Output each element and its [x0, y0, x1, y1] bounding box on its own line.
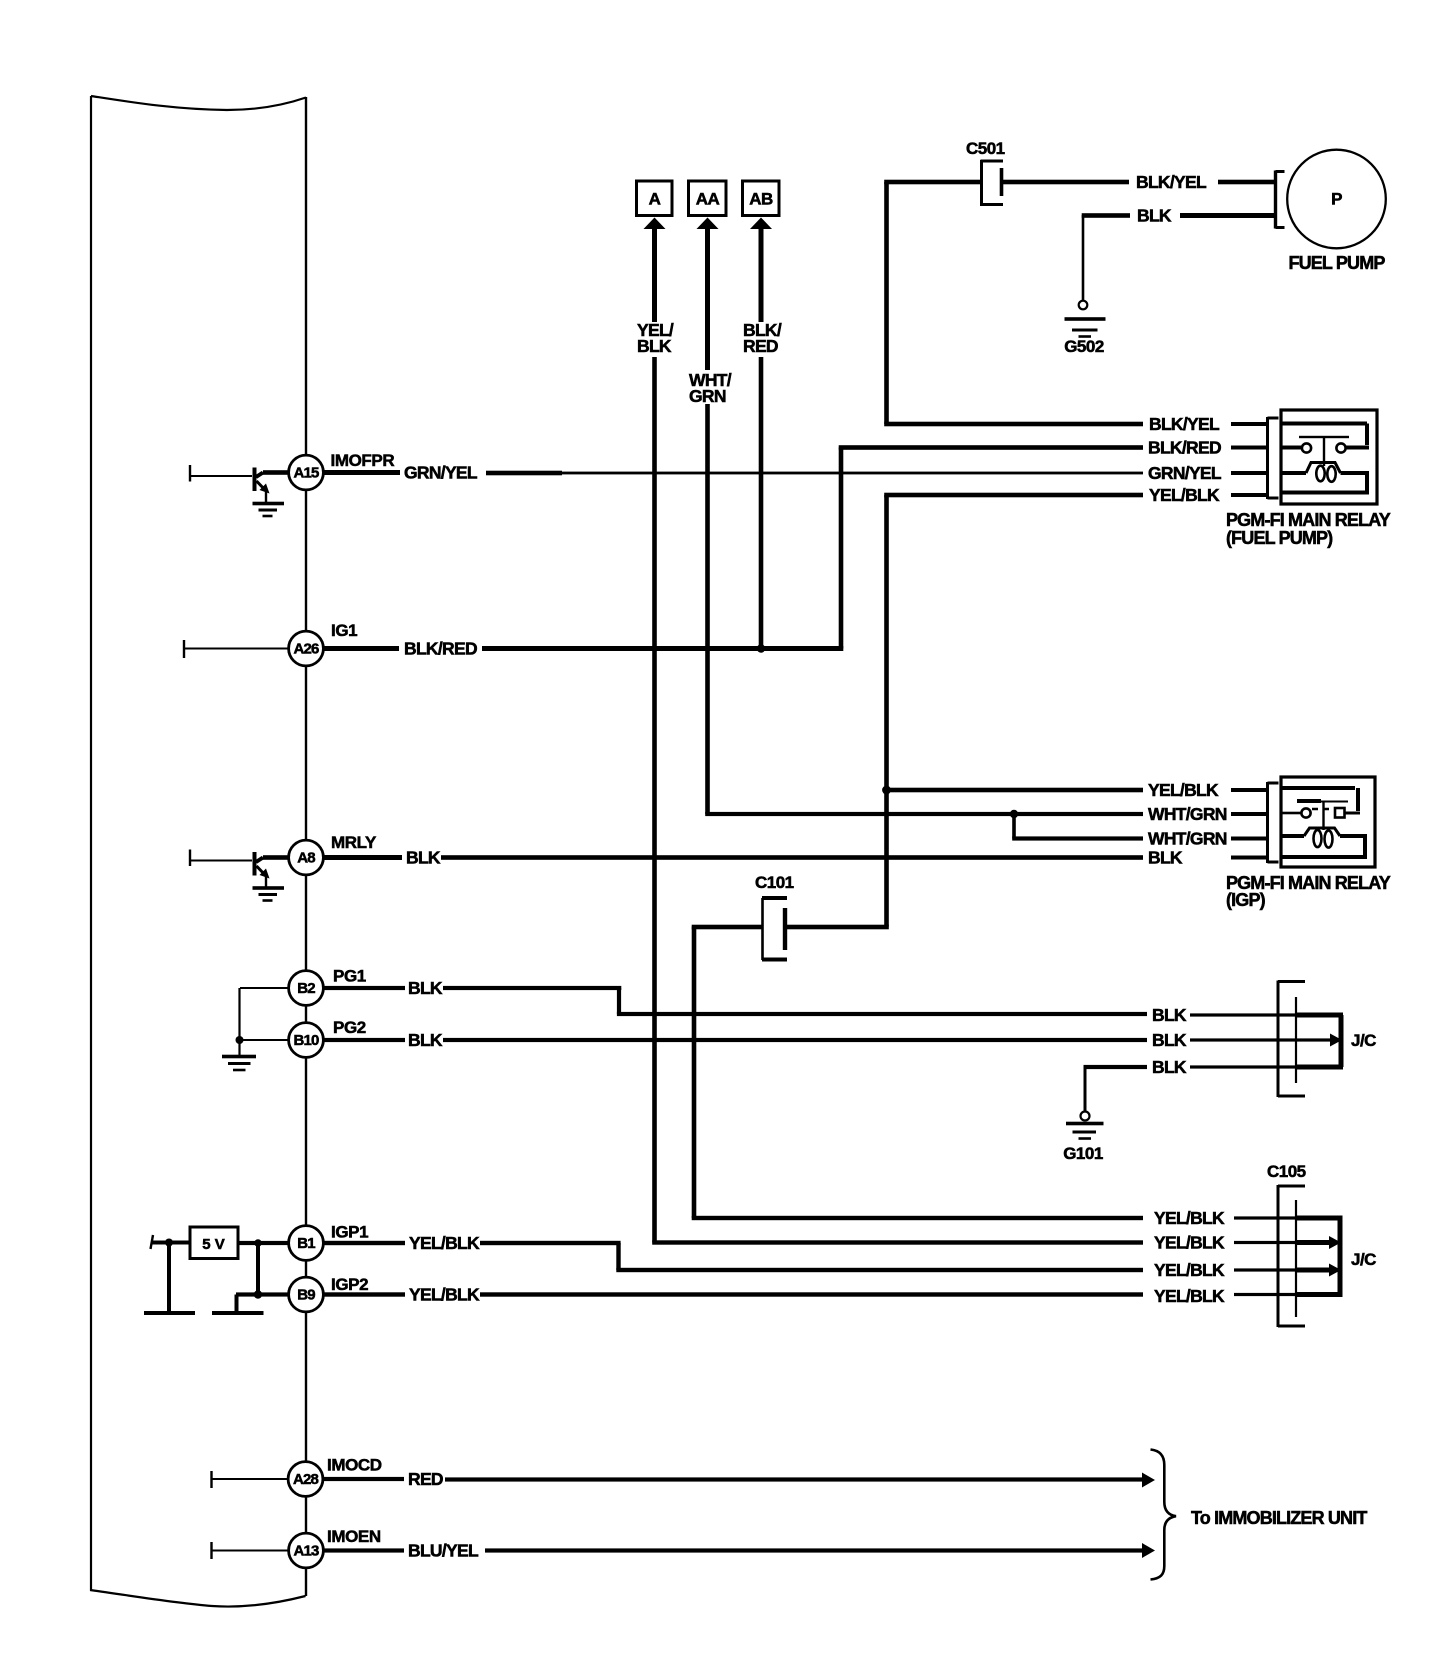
svg-text:B9: B9: [297, 1287, 315, 1304]
svg-text:RED: RED: [743, 336, 778, 356]
svg-text:BLU/YEL: BLU/YEL: [408, 1541, 479, 1561]
svg-text:IGP2: IGP2: [331, 1275, 368, 1294]
svg-text:To IMMOBILIZER UNIT: To IMMOBILIZER UNIT: [1191, 1508, 1367, 1528]
svg-text:IG1: IG1: [331, 621, 357, 640]
svg-text:YEL/BLK: YEL/BLK: [409, 1233, 480, 1253]
svg-text:BLK/RED: BLK/RED: [404, 639, 477, 659]
svg-text:YEL/BLK: YEL/BLK: [1154, 1208, 1225, 1228]
svg-text:BLK/YEL: BLK/YEL: [1149, 414, 1220, 434]
svg-text:BLK: BLK: [1152, 1057, 1187, 1077]
svg-text:A13: A13: [293, 1543, 319, 1560]
svg-text:BLK: BLK: [1148, 848, 1183, 868]
svg-text:BLK: BLK: [408, 978, 443, 998]
svg-text:BLK/RED: BLK/RED: [1148, 438, 1221, 458]
svg-text:B2: B2: [297, 980, 315, 997]
svg-text:YEL/BLK: YEL/BLK: [409, 1285, 480, 1305]
svg-text:IMOCD: IMOCD: [327, 1456, 382, 1475]
svg-text:GRN/YEL: GRN/YEL: [404, 463, 478, 483]
svg-text:IMOFPR: IMOFPR: [331, 451, 395, 470]
svg-text:A28: A28: [293, 1471, 319, 1488]
svg-text:P: P: [1331, 190, 1342, 209]
svg-text:BLK: BLK: [1152, 1005, 1187, 1025]
svg-text:BLK/YEL: BLK/YEL: [1136, 172, 1207, 192]
svg-text:PG2: PG2: [333, 1018, 366, 1037]
svg-text:C105: C105: [1267, 1162, 1306, 1181]
svg-text:(IGP): (IGP): [1226, 890, 1266, 910]
svg-text:AA: AA: [696, 190, 720, 209]
svg-text:BLK: BLK: [408, 1030, 443, 1050]
svg-text:WHT/GRN: WHT/GRN: [1148, 804, 1227, 824]
svg-text:B1: B1: [297, 1235, 315, 1252]
svg-text:BLK: BLK: [406, 848, 441, 868]
svg-text:C501: C501: [966, 139, 1005, 158]
svg-text:YEL/BLK: YEL/BLK: [1154, 1286, 1225, 1306]
svg-text:G101: G101: [1063, 1144, 1103, 1163]
svg-text:A8: A8: [297, 850, 315, 867]
svg-text:RED: RED: [408, 1469, 443, 1489]
svg-text:J/C: J/C: [1351, 1031, 1376, 1050]
svg-text:IMOEN: IMOEN: [327, 1527, 381, 1546]
svg-text:A: A: [649, 190, 661, 209]
svg-text:(FUEL PUMP): (FUEL PUMP): [1226, 528, 1333, 548]
svg-text:5 V: 5 V: [202, 1236, 225, 1253]
svg-text:J/C: J/C: [1351, 1250, 1376, 1269]
svg-text:B10: B10: [293, 1032, 319, 1049]
svg-text:YEL/BLK: YEL/BLK: [1154, 1233, 1225, 1253]
svg-text:BLK: BLK: [1137, 206, 1172, 226]
svg-text:YEL/BLK: YEL/BLK: [1154, 1260, 1225, 1280]
svg-text:WHT/GRN: WHT/GRN: [1148, 829, 1227, 849]
svg-text:GRN/YEL: GRN/YEL: [1148, 463, 1222, 483]
svg-text:MRLY: MRLY: [331, 833, 377, 852]
svg-text:GRN: GRN: [689, 386, 726, 406]
svg-text:BLK: BLK: [1152, 1030, 1187, 1050]
svg-text:PGM-FI MAIN RELAY: PGM-FI MAIN RELAY: [1226, 510, 1391, 530]
svg-text:YEL/BLK: YEL/BLK: [1149, 485, 1220, 505]
svg-text:C101: C101: [755, 873, 794, 892]
svg-text:FUEL PUMP: FUEL PUMP: [1288, 253, 1385, 273]
svg-text:PG1: PG1: [333, 967, 366, 986]
svg-text:AB: AB: [749, 190, 773, 209]
svg-text:A15: A15: [293, 465, 319, 482]
svg-text:BLK: BLK: [637, 336, 672, 356]
svg-text:YEL/BLK: YEL/BLK: [1148, 780, 1219, 800]
svg-text:A26: A26: [293, 641, 319, 658]
svg-text:G502: G502: [1064, 337, 1104, 356]
svg-text:IGP1: IGP1: [331, 1223, 368, 1242]
